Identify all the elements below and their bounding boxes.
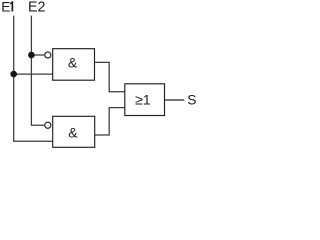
wire E2 vertical down then right to AND2 inverted input [31,16,44,126]
svg-text:&: & [68,54,78,70]
node junction dot on E2 wire [28,52,35,59]
wire branch from E2 node to AND1 inverted input [31,54,44,56]
svg-text:S: S [187,92,196,107]
wire branch from E1 node to AND1 lower input [14,73,53,75]
and-gate U1 box [53,49,95,80]
svg-text:E: E [1,0,10,15]
wire OR output to S [165,99,185,101]
node junction dot on E1 wire [10,71,17,78]
inverter bubble at AND1 input [45,52,51,58]
svg-text:≥1: ≥1 [135,91,151,107]
wire E1 vertical down then right to AND2 lower input [14,16,53,142]
wire AND1 output right, down, right to OR upper input [95,62,125,91]
and-gate U2 box [53,116,95,147]
wire AND2 output right, up, right to OR lower input [95,108,125,135]
or-gate U3 box [125,84,165,116]
svg-text:E2: E2 [28,0,46,16]
svg-text:&: & [68,125,78,141]
inverter bubble at AND2 input [45,122,51,128]
